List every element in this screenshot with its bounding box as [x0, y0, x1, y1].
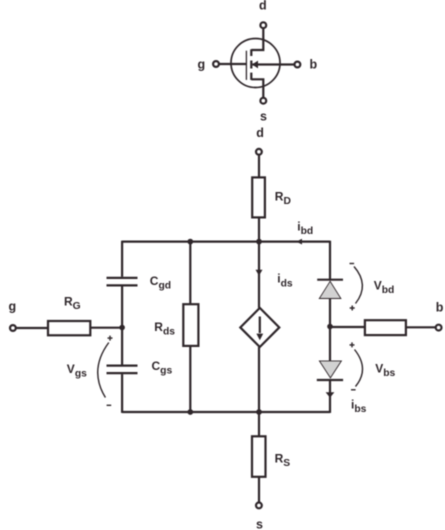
wire gate lead — [219, 63, 246, 65]
svg-text:Rds: Rds — [154, 320, 175, 338]
wire Dbs to bottom rail — [329, 380, 331, 413]
svg-text:Cgd: Cgd — [150, 274, 171, 292]
transistor U1 channel segment middle — [250, 61, 252, 69]
current source ids arrow — [259, 317, 261, 334]
minus sign Vgs — [107, 404, 112, 406]
svg-text:s: s — [260, 110, 267, 124]
resistor Rds — [183, 304, 198, 346]
transistor U1 gate bar — [245, 51, 247, 80]
wire Cgs to bottom rail — [121, 374, 123, 413]
wire top rail — [122, 241, 330, 243]
wire Dbd to b-junction — [329, 299, 331, 327]
terminal b of MOSFET — [295, 62, 301, 68]
svg-text:s: s — [256, 518, 263, 530]
terminal b node — [436, 325, 442, 331]
node junction gate — [119, 325, 125, 331]
node junction top RDS — [187, 239, 193, 245]
capacitor Cgs — [107, 366, 138, 374]
node junction bottom Rds — [187, 409, 193, 415]
wire bottom rail — [122, 411, 330, 413]
transistor U1 channel segment top — [250, 49, 252, 56]
svg-text:b: b — [310, 58, 318, 72]
terminal g of MOSFET — [213, 61, 219, 67]
transistor U1 drain lead inside — [251, 39, 263, 50]
diode Dbd cathode bar — [317, 279, 343, 281]
wire RG to junction — [90, 327, 122, 329]
plus sign Vgs — [108, 336, 113, 341]
svg-text:Vbd: Vbd — [374, 279, 395, 297]
transistor U1 source lead inside — [251, 79, 263, 98]
svg-text:d: d — [259, 0, 267, 13]
wire RS to s terminal — [258, 477, 260, 503]
svg-text:Vbs: Vbs — [375, 361, 395, 379]
transistor U1 channel segment bottom — [250, 73, 252, 80]
wire left rail (top segment to Cgd) — [121, 241, 123, 277]
wire g terminal to RG — [16, 327, 48, 329]
resistor RB — [365, 320, 406, 335]
terminal s node — [256, 503, 262, 509]
terminal d of MOSFET — [260, 22, 266, 28]
capacitor Cgd — [107, 278, 138, 286]
wire b-junction to RB — [330, 326, 365, 328]
svg-text:ids: ids — [277, 272, 293, 290]
wire b-junction to Dbs — [329, 327, 331, 361]
wire current source to bottom rail — [258, 347, 260, 412]
wire d to RD — [258, 155, 260, 178]
wire RB to b terminal — [406, 326, 436, 328]
diode Dbs anode bar — [317, 379, 343, 381]
node junction bulk — [327, 324, 333, 330]
terminal d of model — [256, 149, 262, 155]
wire RD to current source — [258, 217, 260, 308]
svg-text:RS: RS — [275, 451, 291, 469]
svg-text:ibs: ibs — [351, 397, 367, 415]
wire bottom rail to RS — [258, 412, 260, 436]
plus sign Vbd — [350, 306, 355, 311]
arrow ibs on wire — [326, 392, 335, 397]
diode Dbd triangle — [319, 281, 341, 298]
minus sign Vbs — [351, 389, 356, 391]
terminal s of MOSFET — [260, 98, 266, 104]
svg-text:g: g — [9, 300, 17, 314]
arc Vbs — [355, 350, 363, 387]
svg-text:Cgs: Cgs — [152, 359, 173, 377]
wire diode branch top — [329, 241, 331, 279]
wire Cgd to g-junction — [121, 286, 123, 327]
svg-text:RD: RD — [275, 190, 291, 208]
arrow ids on wire — [256, 270, 263, 276]
svg-text:ibd: ibd — [297, 219, 313, 237]
resistor RS — [252, 436, 266, 477]
diode Dbs triangle — [319, 361, 341, 378]
arc Vgs — [98, 343, 109, 398]
node junction bottom source — [256, 409, 262, 415]
arrow ibd on top rail — [296, 239, 302, 245]
resistor RD — [252, 177, 265, 217]
wire drain lead — [262, 28, 264, 50]
plus sign Vbs — [350, 342, 355, 347]
wire top rail to Rds — [189, 242, 191, 305]
minus sign Vbd — [350, 263, 355, 265]
transistor U1 body circle — [231, 39, 280, 88]
svg-text:d: d — [256, 126, 264, 140]
terminal g node — [10, 325, 16, 331]
current source ids diamond — [240, 308, 279, 347]
svg-text:b: b — [436, 301, 444, 315]
transistor U1 bulk arrow — [252, 61, 258, 69]
node junction top drain — [256, 239, 262, 245]
arc Vbd — [354, 267, 362, 304]
resistor RG — [48, 321, 90, 335]
wire bulk lead — [253, 63, 295, 65]
svg-text:Vgs: Vgs — [67, 362, 87, 380]
wire g-junction to Cgs — [121, 328, 123, 365]
svg-text:RG: RG — [64, 295, 81, 313]
svg-text:g: g — [198, 58, 206, 72]
wire Rds to bottom rail — [189, 346, 191, 412]
